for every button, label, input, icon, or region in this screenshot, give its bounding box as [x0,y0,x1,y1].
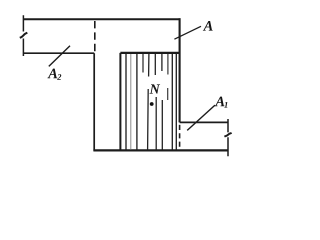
block N hatch line 2 (faint) [130,54,132,150]
dashed opening of left tube [94,21,96,51]
right tube break symbol [224,133,231,137]
label A [203,21,213,31]
right tube top wall [180,121,228,123]
right wall of vessel [179,18,181,122]
label A2 [47,69,57,79]
block N hatch line 3 [136,54,138,150]
block N hatch line 7 (interrupted) [161,54,163,150]
left tube bottom wall [23,52,94,54]
block N hatch line 8 (upper stub) [167,54,169,100]
left tube end vertical [22,15,24,56]
leader slash for label A1 [187,105,215,130]
point marker dot [150,102,154,106]
block N right wall [175,54,177,150]
leader line for label A [174,26,201,39]
block N hatch line 1 [125,54,127,150]
label A1 subscript [224,102,227,108]
block N hatch line 9 [171,54,173,150]
block N hatch line 4 (upper stub) [142,54,144,73]
label A1 [215,97,225,107]
left wall of vessel [93,53,95,151]
block N top edge [120,52,179,54]
label A2 subscript [57,74,61,80]
top wall of vessel [23,18,180,20]
dashed opening of right tube [179,125,181,149]
block N hatch line 6 (interrupted by label) [154,54,157,150]
right tube end vertical [227,119,229,156]
leader slash for label A2 [49,46,70,67]
left tube break symbol [20,33,28,38]
block N left wall [119,53,121,150]
label N [149,84,160,93]
bottom wall of vessel [93,149,228,151]
block N hatch line 5 [148,54,149,150]
